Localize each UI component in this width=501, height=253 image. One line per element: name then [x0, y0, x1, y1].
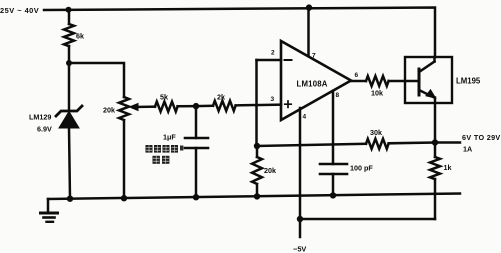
svg-text:−5V: −5V [293, 245, 306, 253]
svg-text:LM195: LM195 [456, 77, 481, 86]
wire: inverting input down to feedback node [255, 60, 258, 146]
wire: 1k top lead [434, 143, 437, 158]
node: pot ground junction [121, 195, 127, 201]
label: polyester film capacitor chinese text row 2 [153, 156, 170, 164]
svg-text:1μF: 1μF [163, 133, 176, 142]
transistor collector diagonal [419, 62, 435, 73]
svg-text:10k: 10k [371, 89, 383, 98]
capacitor 100pF top plate [320, 163, 347, 166]
svg-text:4: 4 [303, 114, 307, 121]
wire: output stub [435, 141, 460, 144]
wire: pot wiper line [135, 105, 155, 108]
resistor 6k [64, 24, 74, 46]
svg-text:6: 6 [355, 72, 359, 79]
resistor 1k [430, 157, 440, 179]
wire: 100pF bottom lead to ground rail [332, 174, 335, 195]
node: 20k ground junction [254, 193, 260, 199]
ground [47, 199, 50, 213]
wire: 20k bottom lead to ground rail [256, 184, 259, 196]
wire: 1uF bottom lead to ground rail [195, 148, 198, 197]
svg-text:6.9V: 6.9V [37, 125, 52, 134]
wire: -5V stub [299, 219, 302, 237]
wire: pin 2 inverting input lead [257, 59, 282, 62]
wire: emitter down to output node [434, 98, 437, 143]
wire: pin 7 to supply rail [307, 8, 310, 56]
zener diode LM129 anode triangle [59, 112, 79, 129]
wire: zener anode to ground rail [69, 128, 70, 199]
svg-text:7: 7 [312, 53, 316, 60]
capacitor 1uF top plate [185, 137, 208, 140]
node: 100pF ground junction [330, 192, 336, 198]
wire: reference node to pot top [69, 63, 124, 97]
capacitor 1uF bottom plate [185, 147, 208, 150]
transistor Q1 base bar [418, 69, 421, 95]
svg-text:1A: 1A [463, 145, 472, 154]
wire: pin 4 down to -5V line [299, 108, 302, 219]
svg-text:20k: 20k [103, 106, 115, 115]
resistor 20k feedback [252, 157, 262, 184]
svg-text:LM108A: LM108A [297, 80, 328, 89]
wire: feedback line from inverting node to output node [257, 144, 366, 146]
potentiometer 20k body [119, 97, 129, 120]
svg-text:100 pF: 100 pF [350, 164, 373, 173]
wire: 10k to transistor base [389, 80, 419, 83]
wire: 6k bottom lead [68, 46, 71, 63]
node: reference node (6k / LM129 / pot) [66, 60, 72, 66]
op-amp minus sign pin2 [285, 59, 292, 61]
label: polyester film capacitor chinese text row 1 [146, 145, 184, 153]
resistor 5k [155, 102, 178, 112]
transistor LM195 package box [405, 57, 452, 103]
node: feedback node (pin2 / 20k / 30k) [254, 143, 260, 149]
node: divider node (5k / 2k / 1uF) [193, 103, 199, 109]
svg-text:1k: 1k [444, 163, 452, 172]
wire: ground rail [48, 194, 460, 200]
wire: top positive supply rail [44, 8, 435, 58]
svg-text:6V TO 29V: 6V TO 29V [462, 133, 501, 142]
wire: op-amp output pin 6 [351, 80, 366, 83]
svg-text:25V ~ 40V: 25V ~ 40V [0, 6, 39, 15]
svg-text:6k: 6k [76, 32, 84, 41]
capacitor 100pF bottom plate [320, 173, 347, 176]
transistor emitter arrowhead [426, 90, 436, 98]
wire: 30k to output node [389, 141, 435, 144]
wire: node to 2k [196, 105, 213, 108]
node: input junction to 6k [66, 7, 72, 13]
resistor 30k [366, 139, 389, 149]
wire: -5V line [300, 218, 435, 221]
svg-text:20k: 20k [264, 166, 276, 175]
svg-text:30k: 30k [370, 128, 382, 137]
node: output node [432, 139, 438, 145]
zener diode LM129 cathode bar [56, 106, 82, 116]
svg-text:5k: 5k [160, 93, 168, 102]
wire: 6k top lead [68, 10, 71, 24]
wire: 1k bottom lead to -5V line [434, 179, 437, 219]
svg-text:3: 3 [271, 96, 275, 103]
svg-text:2: 2 [271, 50, 275, 57]
wire: 1uF top lead [195, 106, 198, 138]
transistor emitter diagonal [419, 90, 433, 97]
wire: zener cathode lead [68, 63, 71, 110]
wire: pot bottom lead to ground rail [123, 121, 126, 198]
wire: 5k to reference divider node [178, 105, 196, 108]
node: pin7 supply junction [306, 4, 312, 10]
op-amp U1 LM108A triangle [281, 41, 351, 120]
wire: collector to box top / supply rail [433, 57, 436, 62]
resistor 10k [366, 76, 389, 86]
pot wiper arrowhead [130, 104, 139, 111]
op-amp plus sign pin3 [285, 101, 291, 107]
wire: 2k to op-amp noninverting input pin 3 [236, 103, 281, 106]
wire: 20k feedback resistor top lead [256, 146, 259, 157]
svg-text:LM129: LM129 [29, 113, 51, 122]
svg-text:8: 8 [336, 92, 340, 99]
node: zener ground junction [67, 196, 73, 202]
node: 1uF ground junction [193, 194, 199, 200]
node: -5V junction [297, 216, 303, 222]
svg-text:2k: 2k [217, 93, 225, 102]
resistor 2k [213, 101, 236, 111]
wire: pin 8 compensation lead down [332, 91, 335, 164]
